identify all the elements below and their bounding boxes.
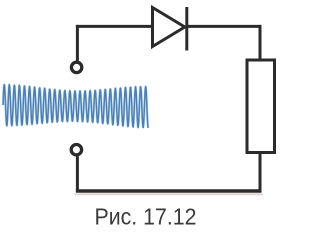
diode triangle (anode) xyxy=(153,8,185,47)
wire: left vertical segment from top corner down to upper terminal xyxy=(76,25,79,61)
wire: top-left horizontal segment (anode side) xyxy=(76,25,152,28)
wire: right vertical segment from resistor down to bottom corner xyxy=(259,153,262,193)
upper input terminal xyxy=(71,62,81,72)
diode cathode bar xyxy=(185,7,188,51)
wire: top-right horizontal segment (cathode side) xyxy=(186,25,262,28)
input AM signal waveform xyxy=(3,85,148,128)
lower input terminal xyxy=(71,145,81,155)
svg-text:Рис. 17.12: Рис. 17.12 xyxy=(95,204,197,230)
wire: right vertical segment from top corner down to resistor xyxy=(259,25,262,60)
wire: bottom horizontal segment (with faint scan shadow) xyxy=(75,193,264,195)
wire: left vertical segment from lower terminal down to bottom corner xyxy=(76,156,79,192)
resistor (load) xyxy=(247,60,275,153)
